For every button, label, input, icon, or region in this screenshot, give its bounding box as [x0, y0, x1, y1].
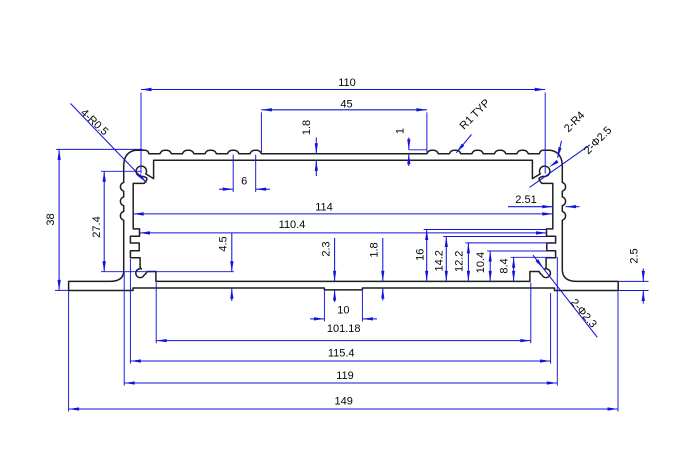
svg-text:115.4: 115.4 — [328, 348, 355, 360]
profile outer contour with serrated top, side ribs, bottom flanges — [69, 150, 619, 290]
dimension 149 overall width — [69, 291, 618, 412]
dimension 119 body width — [124, 257, 557, 386]
dimension 38 overall height — [45, 149, 142, 290]
dimension 2.51 wall thickness — [508, 194, 580, 208]
leader 4-R0.5 corner radii — [71, 104, 147, 183]
dimension 12.2 slot feature height — [454, 243, 553, 282]
svg-text:110.4: 110.4 — [279, 219, 306, 231]
svg-text:2.51: 2.51 — [515, 194, 536, 206]
svg-text:4-R0.5: 4-R0.5 — [78, 107, 110, 138]
svg-text:14.2: 14.2 — [434, 250, 446, 271]
dimension 27.4 screw center distance — [91, 171, 234, 271]
svg-text:149: 149 — [335, 396, 353, 408]
dimension 114 upper inner width — [133, 202, 553, 216]
svg-text:1.8: 1.8 — [369, 242, 381, 257]
leader 2-R4 top corner radius — [558, 109, 588, 157]
dimension 10.4 slot feature height — [475, 251, 548, 281]
svg-text:101.18: 101.18 — [327, 323, 361, 335]
svg-text:16: 16 — [414, 249, 426, 261]
svg-text:110: 110 — [338, 77, 356, 89]
svg-text:2-Φ2.3: 2-Φ2.3 — [568, 297, 599, 331]
leader 2-Φ2.5 top screw channels — [530, 124, 615, 187]
svg-text:2.5: 2.5 — [628, 248, 640, 263]
svg-text:27.4: 27.4 — [91, 216, 103, 237]
dimension 6 serration pitch — [219, 155, 270, 193]
dimension 1.8 top plate thickness — [301, 120, 318, 176]
svg-text:2.3: 2.3 — [320, 241, 332, 256]
svg-text:2-Φ2.5: 2-Φ2.5 — [582, 124, 614, 156]
svg-text:10: 10 — [337, 305, 349, 317]
dimension 2.5 flange thickness — [619, 248, 649, 303]
dimension 110.4 slot finger width — [140, 219, 547, 234]
svg-text:119: 119 — [336, 370, 354, 382]
dimension 4.5 shelf height — [217, 233, 233, 301]
dimension 2.3 bottom pad thickness — [320, 238, 336, 302]
svg-text:1.8: 1.8 — [301, 120, 313, 135]
svg-text:10.4: 10.4 — [475, 252, 487, 273]
dimension 14.2 slot feature height — [434, 237, 547, 282]
dimension 101.18 inner floor width — [156, 283, 531, 344]
dimension 45 (smooth top width) — [261, 98, 427, 152]
svg-text:38: 38 — [45, 213, 57, 225]
profile inner cavity with PCB slots, screw channels, shelves — [130, 160, 555, 281]
svg-text:4.5: 4.5 — [217, 236, 229, 251]
svg-text:2-R4: 2-R4 — [562, 109, 587, 134]
dimension 115.4 lower inner width — [130, 259, 550, 364]
svg-text:12.2: 12.2 — [454, 251, 466, 272]
svg-text:R1 TYP: R1 TYP — [458, 97, 493, 132]
dimension 110 top (screw channel centers) — [141, 77, 545, 174]
leader 2-Φ2.3 bottom screw channels — [533, 255, 599, 337]
svg-text:8.4: 8.4 — [499, 258, 511, 273]
dimension 1.8 bottom plate thickness — [369, 238, 385, 301]
leader R1 TYP serration radius — [456, 97, 492, 153]
dimension 1 serration height — [394, 128, 427, 166]
svg-text:6: 6 — [241, 175, 247, 187]
svg-text:45: 45 — [340, 98, 352, 110]
svg-text:114: 114 — [315, 202, 333, 214]
svg-text:1: 1 — [394, 128, 406, 134]
dimension 8.4 slot feature height — [499, 257, 552, 281]
dimension 10 bottom pad width — [310, 291, 377, 322]
dimension 16 slot feature height — [414, 230, 546, 282]
